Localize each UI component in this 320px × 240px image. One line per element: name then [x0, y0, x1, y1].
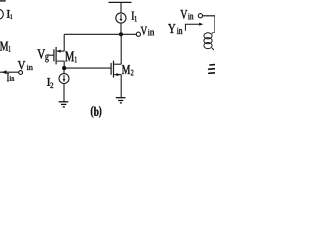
- label Yin: [168, 24, 182, 34]
- label Vin (middle): [141, 27, 155, 36]
- left circuit wire to Vin terminal: [0, 71, 19, 73]
- Vin open terminal (middle): [136, 32, 140, 36]
- label M2: [122, 65, 133, 75]
- label I1 (middle): [132, 12, 137, 22]
- ground (I2): [59, 102, 69, 107]
- current source I1 (middle): [116, 13, 126, 23]
- label Vg: [37, 49, 48, 62]
- wire node down to M1 source: [63, 34, 65, 51]
- junction dot M1 drain: [62, 66, 66, 70]
- Yin arrow: [185, 23, 203, 31]
- M2 drain leg: [120, 34, 122, 64]
- left circuit (a) partial: VDD rail: [0, 0, 6, 2]
- wire M1 drain to M2 gate: [64, 67, 111, 69]
- transistor M2 (NMOS): [111, 61, 121, 78]
- left Iin current arrowhead: [2, 71, 6, 74]
- wire I1 to node: [120, 23, 122, 34]
- label Vin (left): [18, 61, 33, 70]
- right vertical wire at edge: [214, 16, 216, 33]
- caption (b): [91, 106, 101, 118]
- middle circuit (b): VDD rail: [109, 1, 132, 3]
- ground (M2): [116, 98, 126, 103]
- junction dot at node: [119, 32, 123, 36]
- transistor M1 (PMOS): [48, 47, 64, 68]
- label M1 (left): [0, 42, 11, 52]
- inductor coil: [204, 32, 214, 50]
- right Vin open terminal: [198, 14, 202, 18]
- M2 source leg: [120, 75, 122, 98]
- node wire (Vin node): [64, 33, 136, 35]
- label I2: [47, 78, 53, 88]
- wire down to I2: [63, 68, 65, 74]
- inductor lower turns (clipped at edge): [209, 65, 216, 74]
- left circuit current source I1 (clipped circle): [0, 9, 3, 19]
- current source I2: [59, 74, 69, 84]
- left Vin open terminal: [19, 71, 23, 75]
- wire rail to I1: [120, 2, 122, 13]
- label I1 (left): [7, 10, 13, 19]
- right circuit (c): label Vin: [180, 10, 193, 19]
- label M1 (middle): [65, 52, 77, 63]
- right wire from terminal to edge: [203, 15, 216, 17]
- label Iin: [7, 73, 14, 81]
- wire I2 to ground: [63, 84, 65, 102]
